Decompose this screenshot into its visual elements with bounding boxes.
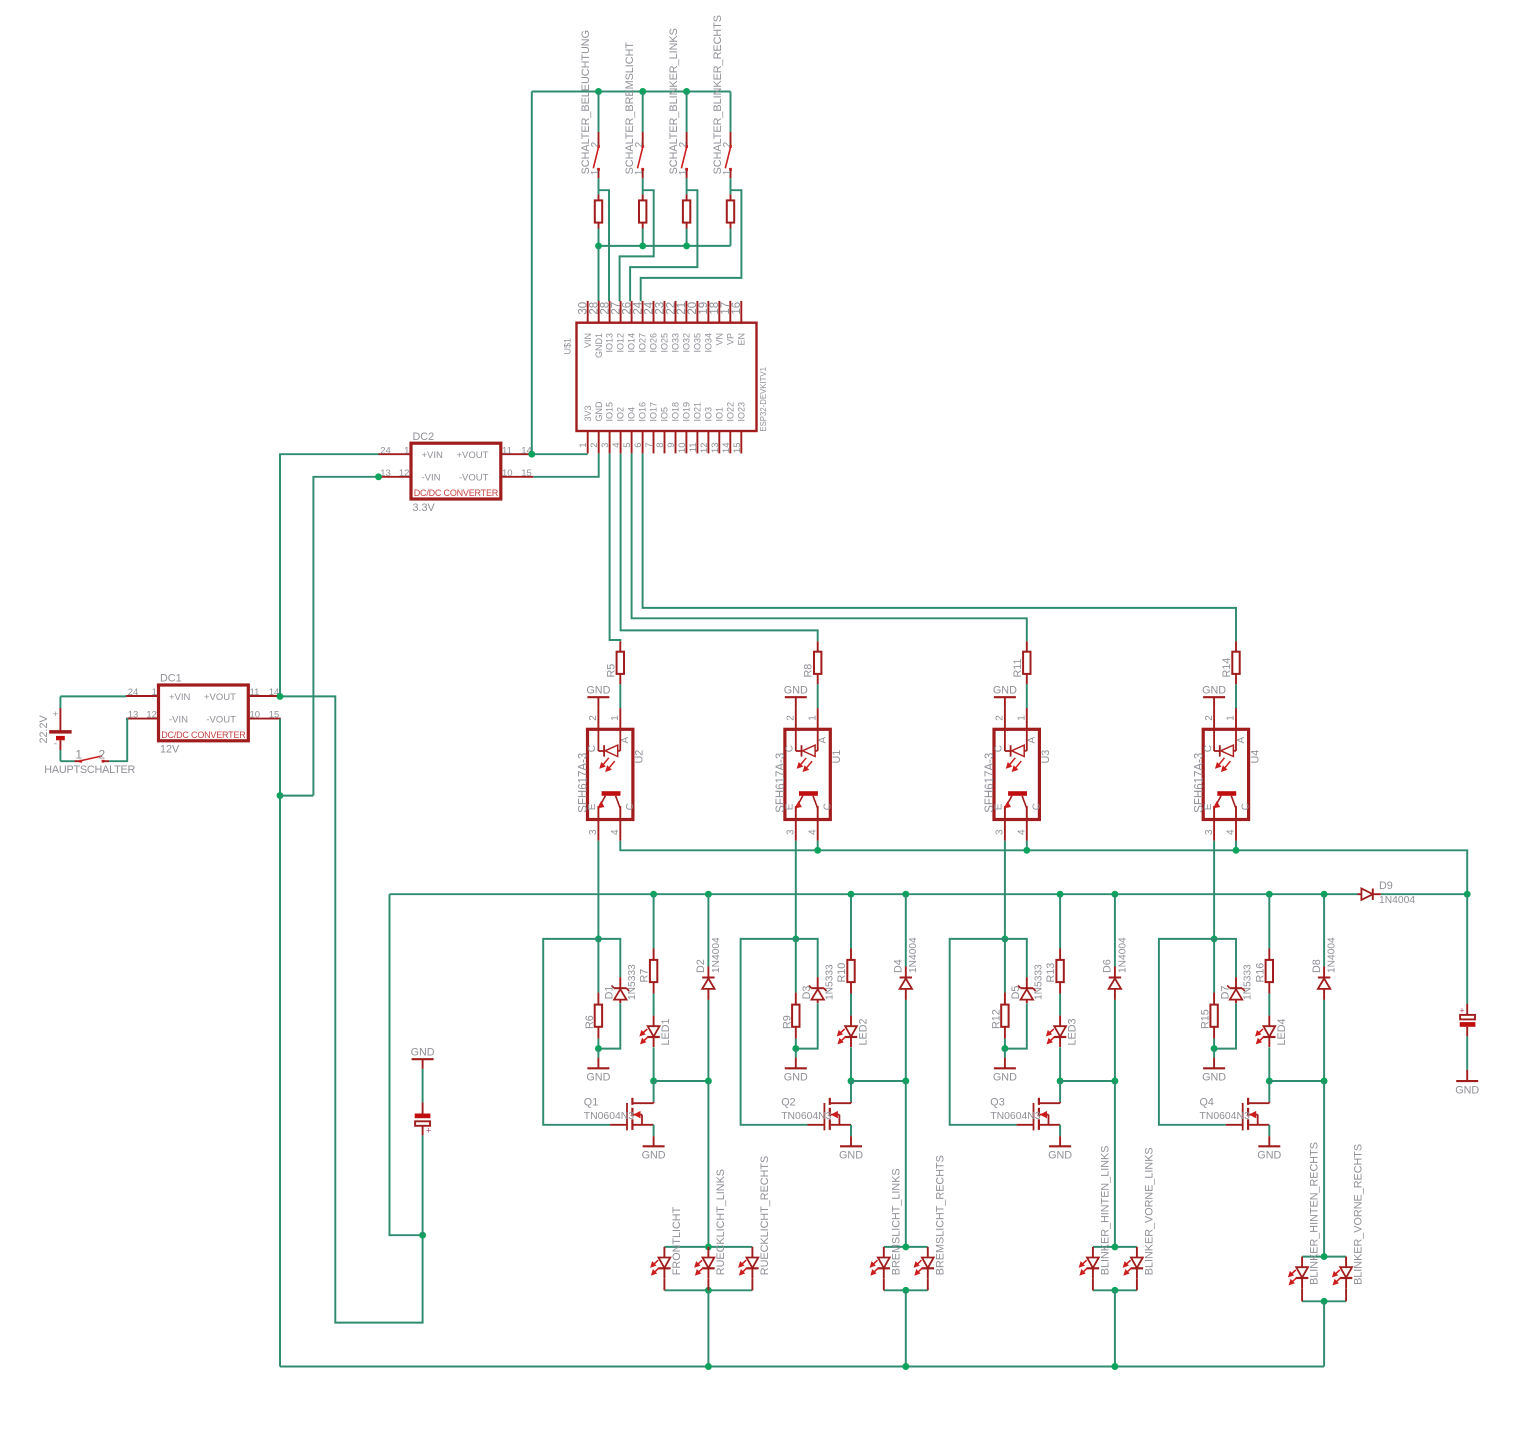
svg-text:IO27: IO27 [638,333,648,353]
optocoupler U1 SFH617A-3 [785,729,830,819]
ESP32 top pin 17 VP [729,301,731,323]
ESP32 bottom pin 9 IO18 [675,431,677,453]
wire resistor 2 to rail [642,229,644,246]
junction 12V row D8 [1321,891,1328,898]
junction 12V row R16 [1266,891,1273,898]
main switch HAUPTSCHALTER [60,760,74,762]
wire resistor 1 to rail [598,229,600,246]
wire LED4 to drain node [1268,1047,1270,1081]
resistor R10 [850,894,852,948]
wire R5 to U2 pin 1 [619,684,621,708]
junction gate node 3 [1001,935,1008,942]
svg-text:LED1: LED1 [660,1018,672,1045]
svg-text:13: 13 [128,710,139,721]
junction lamp group 4 top [1321,1253,1328,1260]
svg-text:GND: GND [1202,684,1226,696]
ESP32 top pin 19 IO34 [707,301,709,323]
lamp group 4 top rail [1302,1256,1346,1258]
wire R11 to U3 pin 1 [1026,684,1028,708]
svg-text:D8: D8 [1311,959,1323,973]
flyback diode D2 1N4004 [707,894,709,966]
zener diode D7 1N5333 [1214,939,1236,977]
resistor R9 [795,939,797,993]
svg-text:IO15: IO15 [605,402,615,422]
resistor R12 [1004,939,1006,993]
svg-text:12: 12 [146,710,157,721]
svg-text:3: 3 [600,443,611,448]
wire D2 to lamp group [707,1081,709,1247]
svg-text:C: C [822,803,833,810]
svg-text:5: 5 [622,443,633,448]
wire resistor 3 to rail [686,229,688,246]
wire U1 pin4 to 12V bus [817,841,819,851]
wire 12V collector bus [620,841,1467,895]
svg-text:GND: GND [586,1072,610,1084]
svg-text:A: A [1236,737,1247,744]
svg-text:1N4004: 1N4004 [711,937,722,973]
svg-text:3: 3 [995,829,1006,835]
svg-text:SCHALTER_BLINKER_RECHTS: SCHALTER_BLINKER_RECHTS [712,15,724,174]
svg-text:FRONTLICHT: FRONTLICHT [671,1206,683,1275]
svg-text:BLINKER_HINTEN_LINKS: BLINKER_HINTEN_LINKS [1100,1146,1112,1276]
junction R6 bottom [595,1045,602,1052]
wire battery + to DC1 +VIN [60,695,126,697]
wire Q1 source to ground [653,1125,655,1136]
svg-text:12: 12 [699,443,710,454]
resistor R15 [1213,939,1215,993]
resistor R16 [1268,894,1270,948]
svg-text:IO35: IO35 [693,333,703,353]
junction rail [595,242,602,249]
wire LED3 to drain node [1059,1047,1061,1081]
svg-text:GND: GND [1048,1150,1072,1162]
pullup resistor for S4 [730,195,732,201]
wire U3 pin4 to 12V bus [1026,841,1028,851]
junction lamp group 2 bottom [902,1287,909,1294]
junction rail [683,242,690,249]
wire 12V row left leg [390,894,423,1235]
svg-text:GND: GND [586,684,610,696]
lamp group 2 bottom rail [884,1289,928,1291]
svg-text:A: A [620,737,631,744]
svg-text:-VOUT: -VOUT [459,473,489,484]
U4 phototransistor [1217,791,1236,796]
wire DC1 -VOUT down [279,719,281,1367]
junction drain 4 [1266,1078,1273,1085]
junction return bus [705,1363,712,1370]
ground above U4 [1203,696,1225,698]
wire drain to D2 [654,1080,709,1082]
svg-text:14: 14 [721,443,732,454]
ground Q1 [653,1136,655,1146]
flyback diode D8 1N4004 [1323,894,1325,966]
svg-text:TN0604N3: TN0604N3 [990,1111,1040,1122]
svg-text:VIN: VIN [583,333,593,348]
junction -VOUT branch [277,792,284,799]
svg-text:1: 1 [578,443,589,448]
svg-text:11: 11 [688,443,699,453]
svg-text:BLINKER_HINTEN_RECHTS: BLINKER_HINTEN_RECHTS [1309,1142,1321,1285]
svg-text:10: 10 [502,468,513,479]
svg-text:BREMSLICHT_LINKS: BREMSLICHT_LINKS [890,1168,902,1275]
svg-text:2: 2 [1204,715,1215,721]
resistor R11 [1026,641,1028,651]
svg-text:16: 16 [731,302,743,315]
ground R12 [1004,1049,1006,1058]
svg-text:D7: D7 [1219,986,1231,1000]
svg-text:A: A [818,737,829,744]
svg-text:Q3: Q3 [990,1097,1004,1109]
svg-text:IO13: IO13 [605,333,615,353]
ESP32 top pin 22 IO33 [675,301,677,323]
lamp group 4 bottom rail [1302,1300,1346,1302]
svg-text:+: + [53,709,59,720]
svg-text:4: 4 [807,829,818,835]
svg-text:1: 1 [75,748,82,762]
ESP32 top pin 18 VN [718,301,720,323]
wire 3V3 rail vertical [531,92,533,455]
DC1 pin -VIN [126,718,159,720]
svg-text:+: + [1459,1006,1464,1016]
svg-text:HAUPTSCHALTER: HAUPTSCHALTER [44,764,135,776]
wire switch rail (GND1 net) [599,245,731,247]
wire DC1 +VOUT 12V rail [280,696,423,1322]
junction lamp group 4 bottom [1321,1298,1328,1305]
wire ESP32 to R11 [632,453,1027,641]
pullup resistor for S3 [686,195,688,201]
svg-text:-VIN: -VIN [169,714,188,725]
ground Q4 [1268,1136,1270,1146]
pullup resistor for S1 [598,195,600,201]
wire gate loop Q1 [543,939,610,1125]
svg-text:R10: R10 [836,963,848,983]
junction 12V bus [814,847,821,854]
ESP32 bottom pin 14 IO22 [729,431,731,453]
zener diode D5 1N5333 [1005,939,1027,977]
MOSFET Q3 TN0604N3 [1059,1081,1061,1102]
svg-text:1: 1 [1226,715,1237,721]
junction gate node 2 [792,935,799,942]
svg-text:2: 2 [98,748,105,762]
LED LED4 [1268,1016,1270,1027]
ESP32 top pin 21 IO32 [685,301,687,323]
svg-text:IO19: IO19 [682,402,692,422]
wire main switch to DC1 -VIN [109,719,127,761]
junction return bus [1111,1363,1118,1370]
ESP32 top pin 23 IO25 [664,301,666,323]
wire D4 to lamp group [905,1081,907,1247]
svg-text:IO22: IO22 [725,402,735,422]
svg-text:3: 3 [1204,829,1215,835]
wire U2 pin3 to driver [597,841,599,939]
svg-text:9: 9 [666,443,677,448]
wire R16 to LED4 [1268,994,1270,1016]
wire U4 pin4 to 12V bus [1235,841,1237,851]
junction 12V row R13 [1057,891,1064,898]
DC2 pin +VIN [379,453,412,455]
wire gate loop Q3 [950,939,1017,1125]
ground above U3 [994,696,1016,698]
junction lamp group 1 bottom [705,1287,712,1294]
svg-text:GND: GND [411,1046,435,1058]
svg-text:IO34: IO34 [704,333,714,353]
svg-text:13: 13 [710,443,721,454]
wire Q4 source to ground [1268,1125,1270,1136]
svg-text:3V3: 3V3 [583,405,593,421]
ground Q3 [1059,1136,1061,1146]
junction R12 bottom [1001,1045,1008,1052]
DC/DC converter DC2 [411,443,501,499]
svg-text:DC/DC CONVERTER: DC/DC CONVERTER [414,488,499,498]
svg-text:7: 7 [644,443,655,448]
svg-text:C: C [625,803,636,810]
ESP32 bottom pin 4 IO2 [620,431,622,453]
svg-text:IO4: IO4 [627,407,637,422]
wire DC2 +VOUT to 3V3 [533,453,587,455]
svg-text:1: 1 [610,715,621,721]
junction 12V bus [1233,847,1240,854]
svg-text:U4: U4 [1249,750,1261,764]
svg-text:1: 1 [807,715,818,721]
optocoupler U2 SFH617A-3 [588,729,633,819]
svg-text:22.2V: 22.2V [38,714,50,743]
svg-text:IO17: IO17 [649,402,659,422]
svg-text:R15: R15 [1200,1009,1212,1029]
svg-text:+VOUT: +VOUT [456,450,488,461]
svg-text:1: 1 [152,687,157,698]
wire LED2 to drain node [850,1047,852,1081]
svg-text:IO12: IO12 [616,333,626,353]
ESP32 top pin 20 IO35 [696,301,698,323]
junction drain 3 [1057,1078,1064,1085]
junction R9 bottom [792,1045,799,1052]
svg-text:U3: U3 [1040,750,1052,764]
LED LED1 [653,1016,655,1027]
svg-text:2: 2 [589,443,600,448]
junction 12V row D6 [1111,891,1118,898]
lamp LED BLINKER_VORNE_RECHTS [1345,1257,1347,1268]
svg-text:R11: R11 [1012,658,1024,677]
junction D8 bottom [1321,1078,1328,1085]
svg-text:12V: 12V [160,744,180,756]
wire capacitor C2 to ground [1466,1036,1468,1069]
wire U1 pin3 to driver [795,841,797,939]
svg-text:1N5333: 1N5333 [824,964,835,1000]
svg-text:15: 15 [269,710,280,721]
ESP32 bottom pin 2 GND [598,431,600,453]
svg-text:GND: GND [993,1072,1017,1084]
svg-text:1N5333: 1N5333 [1243,964,1254,1000]
flyback diode D4 1N4004 [905,894,907,966]
svg-text:+VOUT: +VOUT [204,692,236,703]
junction lamp group 3 bottom [1111,1287,1118,1294]
svg-text:4: 4 [1017,829,1028,835]
svg-text:Q4: Q4 [1200,1097,1214,1109]
junction lamp group 3 top [1111,1243,1118,1250]
lamp group 3 top rail [1093,1246,1137,1248]
svg-text:IO23: IO23 [736,402,746,422]
battery 22.2V [59,696,61,708]
svg-text:2: 2 [588,715,599,721]
wire switch S1 to ESP32 [599,190,610,301]
wire gate loop Q4 [1159,939,1226,1125]
U2 phototransistor [602,791,621,796]
wire resistor 4 to rail [730,229,732,246]
wire switch S2 to ESP32 [620,190,654,301]
junction lamp group 2 top [902,1243,909,1250]
junction top bus / switch 2 [639,88,646,95]
ESP32 bottom pin 8 IO5 [664,431,666,453]
junction 12V row D4 [902,891,909,898]
svg-text:24: 24 [128,687,139,698]
wire capacitor C1 to node [422,1135,424,1235]
resistor R14 [1235,641,1237,651]
ESP32 top pin 28 GND1 [598,301,600,323]
svg-text:D6: D6 [1102,959,1114,973]
svg-text:R13: R13 [1045,963,1057,983]
U4 internal LED [1213,729,1215,751]
svg-text:1: 1 [1017,715,1028,721]
wire return bus [280,1366,1324,1368]
diode D9 1N4004 [1358,893,1362,895]
wire switch S3 to resistor [686,178,688,194]
svg-text:-VOUT: -VOUT [206,714,236,725]
svg-text:R7: R7 [639,969,651,983]
resistor R8 [817,641,819,651]
svg-text:C: C [587,745,598,752]
DC1 pin +VIN [126,695,159,697]
switch S4 SCHALTER_BLINKER_RECHTS [730,92,732,132]
ESP32 bottom pin 5 IO4 [631,431,633,453]
svg-text:GND: GND [839,1150,863,1162]
svg-text:8: 8 [655,443,666,448]
svg-text:R12: R12 [991,1009,1003,1029]
junction DC1 +VOUT [277,693,284,700]
resistor R6 [597,939,599,993]
svg-text:BLINKER_VORNE_LINKS: BLINKER_VORNE_LINKS [1144,1147,1156,1275]
junction gate node 1 [595,935,602,942]
optocoupler U3 SFH617A-3 [994,729,1039,819]
pullup resistor for S2 [642,195,644,201]
DC1 pin -VOUT [248,718,280,720]
svg-text:R14: R14 [1221,658,1233,678]
svg-text:GND: GND [1202,1072,1226,1084]
svg-text:ESP32-DEVKITV1: ESP32-DEVKITV1 [759,367,768,432]
junction DC2 -VIN [375,473,382,480]
wire drain to D4 [851,1080,906,1082]
svg-text:R16: R16 [1254,963,1266,983]
junction capacitor C1 node [419,1232,426,1239]
ground right capacitor [1466,1070,1468,1081]
resistor R7 [653,894,655,948]
svg-text:VN: VN [714,333,724,346]
svg-text:SFH617A-3: SFH617A-3 [1193,753,1205,813]
flyback diode D6 1N4004 [1114,894,1116,966]
svg-text:GND: GND [1257,1150,1281,1162]
ESP32 bottom pin 11 IO21 [696,431,698,453]
svg-text:R9: R9 [781,1015,793,1029]
wire Q2 source to ground [850,1125,852,1136]
ESP32 bottom pin 3 IO15 [609,431,611,453]
switch S3 SCHALTER_BLINKER_LINKS [686,92,688,132]
svg-text:A: A [1027,737,1038,744]
lamp LED BREMSLICHT_LINKS [883,1247,885,1258]
svg-text:+VIN: +VIN [169,692,191,703]
switch S1 SCHALTER_BELEUCHTUNG [598,92,600,132]
ground R9 [795,1049,797,1058]
wire lamp group 2 to return bus [905,1290,907,1366]
svg-text:+VIN: +VIN [422,450,444,461]
svg-text:D3: D3 [801,986,813,1000]
capacitor C2 (right) [1466,894,1468,1004]
lamp group 1 top rail [664,1246,752,1248]
svg-text:-: - [54,739,57,750]
DC2 pin +VOUT [501,453,534,455]
junction return bus [902,1363,909,1370]
wire 12V switched row [390,893,1358,895]
lamp LED RUECKLICHT_LINKS [707,1247,709,1258]
svg-text:IO3: IO3 [704,407,714,422]
svg-text:1N4004: 1N4004 [1327,937,1338,973]
svg-text:GND: GND [784,1072,808,1084]
DC1 pin +VOUT [248,695,280,697]
svg-text:3: 3 [786,829,797,835]
svg-text:DC2: DC2 [413,431,435,443]
svg-text:RUECKLICHT_RECHTS: RUECKLICHT_RECHTS [759,1156,771,1275]
svg-text:U2: U2 [634,750,646,764]
ESP32 bottom pin 7 IO17 [653,431,655,453]
svg-text:LED2: LED2 [858,1018,870,1045]
junction 3V3 [528,451,535,458]
ESP32 top pin 24 IO27 [642,301,644,323]
svg-text:-VIN: -VIN [422,473,441,484]
wire gate loop Q2 [741,939,808,1125]
svg-text:DC/DC CONVERTER: DC/DC CONVERTER [161,730,246,740]
wire switch S3 to ESP32 [630,190,697,301]
svg-text:TN0604N3: TN0604N3 [1200,1111,1250,1122]
svg-text:3: 3 [588,829,599,835]
svg-text:LED4: LED4 [1276,1018,1288,1045]
svg-text:GND: GND [993,684,1017,696]
svg-text:2: 2 [995,715,1006,721]
DC2 pin -VOUT [501,476,534,478]
svg-text:IO14: IO14 [627,333,637,353]
svg-text:SFH617A-3: SFH617A-3 [984,753,996,813]
lamp LED RUECKLICHT_RECHTS [751,1247,753,1258]
svg-text:C: C [994,745,1005,752]
svg-text:IO33: IO33 [671,333,681,353]
svg-text:10: 10 [677,443,688,454]
ground above U2 [587,696,609,698]
ESP32 bottom pin 15 IO23 [740,431,742,453]
wire DC2 -VOUT to ESP GND [533,453,598,476]
svg-text:R8: R8 [803,664,815,678]
ground R6 [597,1049,599,1058]
ESP32 bottom pin 13 IO1 [718,431,720,453]
svg-text:SFH617A-3: SFH617A-3 [775,753,787,813]
svg-text:SFH617A-3: SFH617A-3 [578,753,590,813]
junction 12V row D2 [705,891,712,898]
svg-text:RUECKLICHT_LINKS: RUECKLICHT_LINKS [715,1169,727,1275]
lamp group 2 top rail [884,1246,928,1248]
wire Q3 source to ground [1059,1125,1061,1136]
wire lamp group 3 to return bus [1114,1290,1116,1366]
wire D9 to right rail [1381,893,1467,895]
svg-text:GND1: GND1 [594,333,604,358]
svg-text:C: C [785,745,796,752]
wire D8 to lamp group [1323,1081,1325,1257]
svg-text:1N5333: 1N5333 [627,964,638,1000]
